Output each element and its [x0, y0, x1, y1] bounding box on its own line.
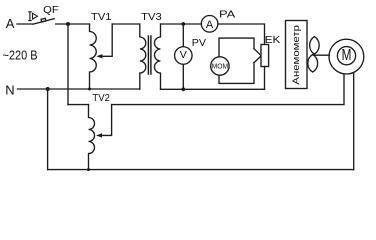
- TV1 wiper arrowhead: [96, 54, 102, 58]
- wire middle rail to motor: [112, 74, 344, 105]
- node junction dot PV top: [181, 22, 185, 26]
- svg-text:A: A: [206, 19, 214, 31]
- svg-text:PA: PA: [219, 10, 236, 21]
- svg-text:EK: EK: [265, 35, 281, 46]
- TV2 wiper arm wire: [101, 105, 111, 136]
- svg-text:Анемометр: Анемометр: [291, 25, 302, 85]
- svg-text:TV1: TV1: [91, 12, 112, 23]
- wire N down to bottom rail: [47, 89, 49, 170]
- wire bottom rail: [48, 169, 354, 171]
- svg-text:PV: PV: [192, 38, 207, 49]
- motor M outer circle: [329, 39, 364, 74]
- wire breaker to TV1 top: [56, 23, 90, 25]
- breaker QF lever: [33, 19, 54, 25]
- ammeter PA: [201, 15, 218, 32]
- svg-text:TV3: TV3: [141, 12, 162, 23]
- motor MOM circle: [211, 57, 229, 75]
- node TV2 bottom joins bottom rail: [87, 168, 90, 171]
- TV1 wiper arm wire: [102, 24, 112, 56]
- duct box with MOM motor: [219, 38, 254, 83]
- wire branch down x=68: [67, 24, 69, 105]
- duct funnel to EK: [254, 49, 261, 63]
- label > of release: [33, 13, 38, 19]
- wire secondary bottom: [161, 88, 265, 90]
- node junction dot (68,24): [66, 22, 70, 26]
- svg-text:~220 В: ~220 В: [3, 47, 38, 62]
- transformer TV3 primary winding: [140, 24, 146, 89]
- wire TV3 secondary top to PA: [161, 23, 202, 25]
- wire motor right lead: [353, 72, 355, 169]
- node TV1 bottom joins N: [88, 88, 91, 91]
- node junction dot PV bottom: [181, 87, 185, 91]
- wire jog to TV2 top: [68, 104, 89, 106]
- transformer TV3 secondary winding: [155, 24, 161, 89]
- label I of release: [29, 12, 31, 21]
- voltmeter PV: [175, 47, 193, 65]
- svg-text:N: N: [5, 82, 14, 97]
- svg-text:QF: QF: [43, 5, 59, 16]
- svg-text:TV2: TV2: [92, 93, 110, 104]
- wire wiper to TV3 primary: [112, 23, 140, 25]
- svg-text:A: A: [6, 16, 15, 31]
- fan blade lower: [308, 54, 318, 72]
- wire PA to EK: [218, 24, 265, 45]
- breaker QF thermal element box: [41, 18, 46, 22]
- wire A to breaker: [17, 23, 33, 25]
- TV3 core: [148, 36, 151, 74]
- wire PV branch: [182, 24, 184, 89]
- svg-text:M: M: [342, 47, 352, 64]
- svg-text:V: V: [180, 49, 187, 61]
- wire EK bottom: [264, 67, 266, 90]
- transformer TV2 winding: [89, 105, 95, 170]
- svg-text:МОМ: МОМ: [212, 62, 229, 71]
- heater EK: [261, 45, 269, 67]
- node junction dot N branch: [46, 87, 50, 91]
- motor M inner circle: [337, 47, 355, 65]
- fan shaft: [314, 54, 330, 56]
- transformer TV1 winding: [90, 24, 97, 89]
- wire N: [18, 88, 140, 90]
- TV2 wiper arrowhead: [96, 133, 102, 137]
- anemometer box: [286, 21, 308, 89]
- fan blade upper: [310, 37, 320, 55]
